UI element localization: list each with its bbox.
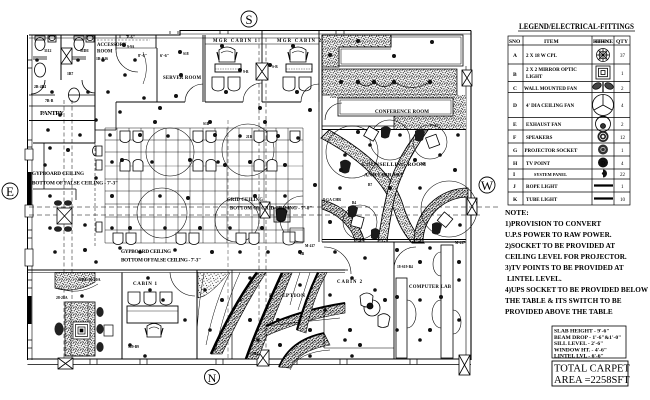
compass W [479, 177, 495, 193]
cabin1 chairs [128, 292, 172, 305]
left lounge: stipple curved reception desk top [55, 273, 98, 292]
mgr1 desk [215, 64, 241, 72]
grid office chairs row2 (facing up) [120, 160, 277, 172]
svg-text:SIDE 20-20A: SIDE 20-20A [78, 277, 101, 282]
column box bottom-center [257, 350, 269, 366]
slab height box [552, 326, 626, 360]
arc band 4: bottom-left small [322, 200, 364, 242]
svg-text:1-M4: 1-M4 [250, 352, 258, 356]
svg-text:AND LIBRARY: AND LIBRARY [364, 173, 404, 179]
svg-text:SNO: SNO [509, 39, 521, 45]
3 dark ellipse chairs right of desk [96, 307, 103, 352]
svg-text:H: H [513, 161, 518, 167]
svg-text:CEILING LEVEL FOR PROJECTOR.: CEILING LEVEL FOR PROJECTOR. [505, 253, 627, 261]
counselling furniture: rotated tables + dark chairs [351, 126, 453, 228]
svg-text:1)PROVISION TO CONVERT: 1)PROVISION TO CONVERT [505, 220, 601, 228]
cabin2 round table + chairs [360, 293, 390, 328]
svg-text:I: I [513, 172, 515, 178]
mgr1 visitor chairs [212, 77, 240, 91]
corridor wall below top rooms [95, 102, 116, 130]
left mid walls below pantry [33, 143, 76, 200]
column box right wall mid [467, 198, 477, 215]
left wall double [27, 35, 29, 360]
mgr2 door arc [301, 84, 319, 102]
svg-text:S18: S18 [183, 52, 189, 56]
NOTE block [505, 208, 649, 316]
svg-text:LINTEL LEVEL.: LINTEL LEVEL. [507, 275, 562, 283]
svg-text:LINTEL LVL - 6'-6": LINTEL LVL - 6'-6" [554, 354, 604, 360]
washbasin toilet 1 [35, 63, 46, 77]
svg-text:TOTAL CARPET: TOTAL CARPET [554, 364, 630, 375]
reception swirl ribbon C (right rising) [266, 303, 345, 336]
thin companion curves [197, 273, 340, 371]
cabin1 door arc [170, 273, 195, 297]
computer lab door [394, 247, 416, 269]
grid office chairs row1 [120, 131, 300, 143]
server room door [185, 84, 203, 102]
big arc band 1 (NW to SE) [321, 130, 424, 243]
reception swirl ribbon A [211, 273, 266, 355]
svg-text:ITEM: ITEM [544, 39, 559, 45]
svg-text:9-B: 9-B [243, 70, 249, 74]
svg-text:PROJECTOR SOCKET: PROJECTOR SOCKET [525, 149, 578, 154]
svg-text:BOTTOM OF GRID CEILING - 7'-8": BOTTOM OF GRID CEILING - 7'-8" [230, 207, 312, 212]
small fixtures top [49, 36, 55, 41]
conference surround stipple [330, 95, 466, 129]
arc band 3: bottom-right half donut [414, 188, 468, 242]
legend grid [508, 36, 630, 205]
svg-text:THE TABLE & ITS SWITCH TO BE: THE TABLE & ITS SWITCH TO BE [505, 297, 622, 305]
svg-text:MGR CABIN 1: MGR CABIN 1 [213, 39, 258, 44]
svg-text:18-S19-B4: 18-S19-B4 [397, 265, 413, 269]
svg-text:B4: B4 [352, 201, 356, 205]
spiral square table [73, 322, 90, 339]
dashed reference lines vertical left pair [64, 100, 72, 358]
svg-text:10: 10 [620, 198, 626, 203]
svg-text:C: C [513, 86, 517, 92]
column box crossed left mid [57, 208, 72, 224]
wall window tick marks top wall [120, 31, 344, 39]
svg-text:ROPE LIGHT: ROPE LIGHT [526, 185, 558, 190]
thin circles [326, 120, 477, 239]
reception stipple patch top-left [198, 273, 229, 299]
svg-text:LIGHT: LIGHT [526, 75, 543, 80]
column box bottom-right [459, 355, 470, 375]
workstation chair right mid [283, 228, 304, 245]
toilet room divider walls [60, 35, 62, 80]
compass N [205, 370, 220, 386]
mgr1 door arc [243, 83, 262, 102]
svg-text:SPEAKERS: SPEAKERS [526, 136, 553, 141]
svg-text:REFERENCE: REFERENCE [593, 39, 613, 45]
mgr2 visitor chairs [283, 77, 311, 91]
svg-text:WALL MOUNTED FAN: WALL MOUNTED FAN [524, 87, 577, 92]
svg-text:22: 22 [620, 173, 626, 178]
svg-text:7B-B: 7B-B [45, 99, 54, 103]
mgr2 exec chair [288, 47, 308, 62]
svg-text:12: 12 [620, 136, 626, 141]
svg-text:BEAM DROP - 1'-6"&1'-0": BEAM DROP - 1'-6"&1'-0" [554, 335, 621, 341]
svg-text:W: W [481, 178, 494, 193]
top wall double line [29, 31, 471, 36]
column box right wall upper [462, 70, 472, 86]
stipple L band top-left of right block [322, 35, 391, 67]
svg-text:BOTTOM OF FALSE CEILING - 7'-3: BOTTOM OF FALSE CEILING - 7'-3" [121, 258, 201, 264]
svg-text:WINDOW HT. - 4'-6": WINDOW HT. - 4'-6" [554, 347, 607, 353]
svg-text:QTY: QTY [616, 39, 628, 45]
compass E [2, 183, 18, 199]
cabin1 small side rect [104, 325, 113, 336]
door arcs toilets [31, 80, 45, 94]
duct crossed box on divider [256, 63, 268, 80]
svg-text:MGR CABIN 2: MGR CABIN 2 [277, 39, 322, 44]
svg-text:8'-6": 8'-6" [138, 53, 147, 58]
svg-text:NOTE:: NOTE: [505, 208, 529, 217]
reception swirl ribbon B [246, 273, 292, 359]
svg-text:21B: 21B [246, 135, 253, 139]
reception swirl ribbon D (bottom right) [279, 333, 330, 368]
compass S [241, 11, 257, 27]
svg-text:GYPBOARD CEILING: GYPBOARD CEILING [121, 249, 171, 255]
dashed section lines horizontal (E-W) [29, 207, 500, 215]
counselling bottom wall [322, 240, 466, 243]
svg-text:SILL LEVEL - 2'-6": SILL LEVEL - 2'-6" [554, 341, 603, 347]
svg-text:4)UPS SOCKET TO BE PROVIDED BE: 4)UPS SOCKET TO BE PROVIDED BELOW [505, 286, 649, 294]
svg-text:3)TV POINTS TO BE PROVIDED AT: 3)TV POINTS TO BE PROVIDED AT [505, 264, 624, 272]
svg-text:1B7: 1B7 [67, 72, 73, 76]
extra dashed construction line [227, 120, 229, 358]
svg-text:S29-B9: S29-B9 [128, 345, 139, 349]
door arc accessory [116, 50, 138, 72]
svg-text:B7: B7 [368, 183, 372, 187]
svg-text:J: J [513, 184, 516, 190]
svg-text:7'-6": 7'-6" [126, 35, 135, 40]
LEGEND table [508, 21, 635, 205]
mgr2 desk [286, 64, 312, 72]
svg-text:28-28A: 28-28A [56, 296, 68, 300]
svg-text:S: S [245, 12, 252, 27]
svg-text:2B-4B4: 2B-4B4 [34, 85, 46, 89]
grid office chairs row3 [113, 233, 259, 245]
cabin1 office chair [145, 324, 163, 338]
crossed duct box inside grid [260, 202, 270, 218]
left edge chairs facing right [93, 146, 102, 232]
wall window tick marks left wall [28, 60, 33, 348]
conference left door [325, 103, 342, 120]
svg-text:CABIN 2: CABIN 2 [337, 280, 363, 285]
dim line top [97, 39, 150, 41]
svg-text:9-9A: 9-9A [127, 45, 135, 49]
bottom wall double [28, 358, 472, 360]
svg-text:4' DIA CEILING FAN: 4' DIA CEILING FAN [526, 104, 574, 109]
svg-text:2 X 2 MIRROR OPTIC: 2 X 2 MIRROR OPTIC [526, 68, 577, 73]
wire curves with speaker dots in band [358, 82, 430, 88]
dark flower chairs near column [54, 200, 72, 232]
svg-text:ROOM: ROOM [97, 50, 113, 55]
svg-text:CONFERENCE ROOM: CONFERENCE ROOM [375, 110, 429, 115]
left vertical stipple desk [65, 302, 95, 356]
svg-text:K: K [513, 197, 518, 203]
dark chair left [55, 323, 64, 336]
svg-text:3112: 3112 [44, 49, 51, 53]
WC toilet 2 [74, 38, 84, 51]
lab tables left column [396, 245, 461, 358]
svg-text:SIDE: SIDE [80, 49, 89, 53]
dashed reference lines vertical center pair (from S) [259, 38, 266, 350]
svg-text:GYPBOARD CEILING: GYPBOARD CEILING [32, 171, 84, 177]
svg-text:2 X 18 W CPL: 2 X 18 W CPL [526, 54, 558, 59]
mgr1 exec chair [217, 47, 237, 62]
svg-text:SYSTEM PANEL: SYSTEM PANEL [534, 172, 567, 177]
svg-text:N: N [208, 371, 217, 385]
svg-text:8-GA CHR: 8-GA CHR [323, 198, 341, 202]
duct box crossed between toilets [61, 48, 72, 64]
svg-text:2)SOCKET TO BE PROVIDED AT: 2)SOCKET TO BE PROVIDED AT [505, 242, 615, 250]
middle stipple band [322, 69, 457, 95]
wall segment left of grid [94, 143, 96, 248]
big arc band 2 (NE to SW crossing) [378, 130, 428, 242]
svg-text:LEGEND/ELECTRICAL-FITTINGS: LEGEND/ELECTRICAL-FITTINGS [519, 21, 634, 31]
svg-text:A: A [513, 53, 517, 59]
WC toilet 1 [35, 38, 45, 51]
washbasin toilet 2 [69, 88, 80, 102]
svg-text:SERVER ROOM: SERVER ROOM [163, 76, 201, 81]
svg-text:SLAB HEIGHT - 9'-6": SLAB HEIGHT - 9'-6" [554, 329, 609, 335]
svg-text:EXHAUST FAN: EXHAUST FAN [526, 123, 562, 128]
svg-text:D: D [601, 162, 605, 167]
svg-text:TUBE LIGHT: TUBE LIGHT [526, 198, 558, 203]
svg-text:S-B: S-B [272, 65, 278, 69]
svg-text:U.P.S POWER TO RAW POWER.: U.P.S POWER TO RAW POWER. [505, 231, 612, 239]
additional dots row2 [35, 58, 462, 358]
svg-text:TV POINT: TV POINT [526, 162, 551, 167]
extra reception ribbons right side [297, 273, 327, 334]
svg-text:COUNSELLING ROOM: COUNSELLING ROOM [362, 162, 427, 168]
svg-text:AREA =2258SFT: AREA =2258SFT [554, 375, 630, 386]
svg-text:B: B [513, 72, 517, 78]
workstation cluster right of duct [274, 208, 290, 222]
svg-text:6'-6": 6'-6" [160, 53, 169, 58]
tiny code labels scattered [127, 45, 465, 356]
vertical wall x319-322 [319, 35, 322, 242]
svg-text:GRID CEILING: GRID CEILING [227, 198, 263, 203]
right wall double [470, 31, 472, 361]
svg-text:M-417: M-417 [455, 241, 465, 245]
column box bottom-left [58, 358, 73, 369]
outer walls [28, 31, 472, 365]
svg-text:PROVIDED ABOVE THE TABLE: PROVIDED ABOVE THE TABLE [505, 308, 613, 316]
window black fills on left wall [28, 172, 32, 324]
cabin2 door arc [324, 247, 351, 274]
pantry room [29, 95, 95, 143]
svg-text:G: G [513, 148, 518, 154]
svg-text:E: E [513, 122, 517, 128]
mirror/counter lines [33, 57, 47, 59]
svg-text:CABIN 1: CABIN 1 [133, 282, 158, 287]
wall window tick marks bottom wall [90, 359, 417, 365]
svg-text:1B: 1B [300, 252, 305, 256]
svg-text:COMPUTER LAB: COMPUTER LAB [409, 285, 452, 290]
svg-text:S1B: S1B [203, 122, 210, 126]
grid ceiling big circles [137, 124, 303, 242]
svg-text:37: 37 [620, 54, 626, 59]
svg-text:E: E [6, 184, 14, 199]
window sill boxes left wall [25, 149, 33, 266]
white training room border [339, 35, 463, 66]
cabin1 table [127, 306, 178, 323]
total carpet area box [552, 361, 630, 386]
scattered ceiling-fitting dots across plan [46, 43, 461, 347]
svg-text:2-B: 2-B [420, 162, 426, 166]
svg-text:M-417: M-417 [305, 244, 315, 248]
svg-text:D: D [513, 103, 517, 109]
